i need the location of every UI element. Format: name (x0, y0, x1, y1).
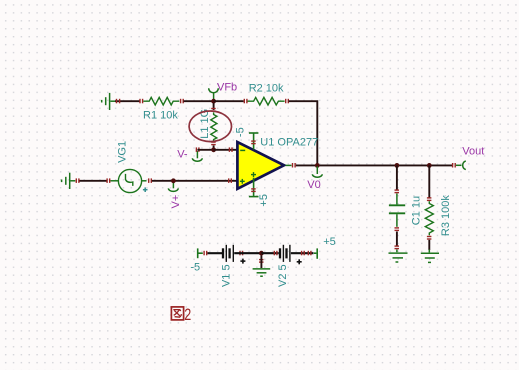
pin ticks battery ground (259, 259, 264, 263)
op-amp negative supply pin (249, 133, 259, 150)
wire output to Vout (296, 164, 452, 166)
pin ticks R3 top (427, 197, 432, 201)
pin ticks ground/R1 left (116, 99, 143, 104)
junction output / feedback (315, 163, 320, 168)
wire junction to V2 (261, 252, 278, 254)
node V- marker (192, 151, 202, 161)
pin ticks V2 left (274, 251, 278, 256)
capacitor C1 (389, 194, 405, 227)
ground (below C1) (389, 250, 408, 263)
wire L1 bottom to minus node (213, 146, 215, 150)
node V+ marker (168, 182, 178, 192)
svg-text:V1 5: V1 5 (220, 264, 232, 287)
svg-text:-5: -5 (190, 261, 200, 273)
svg-text:R2 10k: R2 10k (249, 82, 284, 94)
wire V1 to center junction (234, 252, 261, 254)
pin ticks positive supply (251, 188, 256, 192)
wire R1 to VFb node (184, 100, 217, 102)
wire VFb to R2 (214, 100, 244, 102)
inductor L1 (vertical, from VFb node down) (213, 103, 215, 110)
ground (top-left, feedback line) (102, 93, 116, 110)
pin ticks C1 top (395, 189, 400, 193)
pin ticks R2 left (244, 99, 248, 104)
pin ticks Vout terminal (452, 163, 456, 168)
pin ticks R2 right (285, 99, 289, 104)
pin ticks ground input (76, 178, 80, 183)
ground (below R3) (421, 250, 439, 263)
source VG1 (111, 169, 147, 192)
junction minus input (211, 147, 216, 152)
pin ticks op-amp minus input (229, 147, 233, 152)
figure caption 图2 (171, 307, 183, 320)
wire V2 to +5 terminal (291, 252, 314, 254)
wire R3 to ground (428, 240, 430, 250)
pin ticks C1 ground (395, 245, 400, 249)
op-amp output lead (286, 164, 292, 166)
terminal -5 (battery V1 left) (198, 248, 203, 258)
coil L1 (211, 112, 217, 141)
junction battery center (259, 251, 264, 256)
wire V- stub to junction (197, 149, 213, 151)
svg-text:V2 5: V2 5 (277, 264, 289, 287)
node V0 marker (312, 166, 322, 177)
pin ticks L1 bottom (211, 141, 216, 145)
wire junction to op-amp minus input (214, 149, 238, 151)
plus mark op-amp input (240, 179, 245, 184)
pin ticks V1 right (239, 251, 243, 256)
node VFb marker (209, 88, 219, 100)
pin ticks negative supply (251, 140, 256, 144)
junction C1 (395, 163, 400, 168)
pin ticks VG1 left (106, 178, 110, 183)
resistor R1 (143, 97, 179, 105)
svg-text:R1 10k: R1 10k (143, 109, 178, 121)
ground (left, input line) (62, 173, 76, 189)
pin ticks op-amp output (292, 163, 296, 168)
terminal +5 (battery V2 right) (314, 248, 317, 258)
junction R3 (427, 163, 432, 168)
svg-text:VG1: VG1 (116, 141, 128, 163)
wire down to C1 (396, 165, 398, 190)
plus mark V2 (297, 259, 302, 264)
plus mark op-amp supply (251, 172, 256, 177)
pin ticks op-amp plus input (228, 178, 232, 183)
op-amp positive supply pin (249, 178, 259, 197)
wire down to R3 (428, 165, 430, 198)
svg-text:2: 2 (184, 306, 191, 324)
pin tick V- stub (196, 147, 200, 152)
svg-text:V0: V0 (307, 179, 320, 191)
svg-text:U1 OPA277: U1 OPA277 (260, 137, 318, 149)
pin ticks R3 bottom (427, 236, 432, 240)
svg-text:C1 1u: C1 1u (410, 196, 422, 225)
pin ticks R1 right (180, 99, 184, 104)
svg-text:V-: V- (177, 149, 188, 161)
junction VFb (211, 99, 216, 104)
wire ground to VG1 (80, 180, 108, 182)
wire ground to R1 (115, 100, 140, 102)
pin ticks VG1 right (148, 178, 152, 183)
plus mark V1 (240, 259, 245, 264)
svg-text:+5: +5 (258, 194, 270, 207)
pin ticks L1 top (211, 108, 216, 112)
junction plus input (171, 178, 176, 183)
pin ticks C1 bottom (395, 227, 400, 231)
wire R2 to feedback corner and down to output node (289, 101, 318, 165)
plus mark VG1 (143, 187, 148, 192)
wire C1 to ground (396, 232, 398, 247)
svg-text:VFb: VFb (217, 82, 237, 94)
annotation ellipse around L1 (189, 111, 231, 142)
resistor R3 (425, 201, 433, 235)
svg-text:V+: V+ (170, 195, 182, 209)
svg-text:+5: +5 (323, 236, 336, 248)
resistor R2 (248, 97, 285, 105)
battery V2 (280, 245, 290, 262)
pin ticks V2 right (301, 251, 312, 256)
svg-text:-5: -5 (235, 127, 247, 137)
op-amp U1 triangle (237, 142, 284, 189)
terminal Vout (456, 161, 466, 170)
battery V1 (223, 245, 233, 262)
wire terminal to V1 (208, 252, 223, 254)
svg-text:R3 100k: R3 100k (440, 195, 452, 236)
ground (battery center) (253, 256, 271, 277)
pin ticks V1 left (203, 251, 207, 256)
wire VG1 to op-amp plus input (152, 180, 238, 182)
minus mark op-amp input (240, 149, 245, 151)
svg-text:Vout: Vout (462, 146, 484, 158)
